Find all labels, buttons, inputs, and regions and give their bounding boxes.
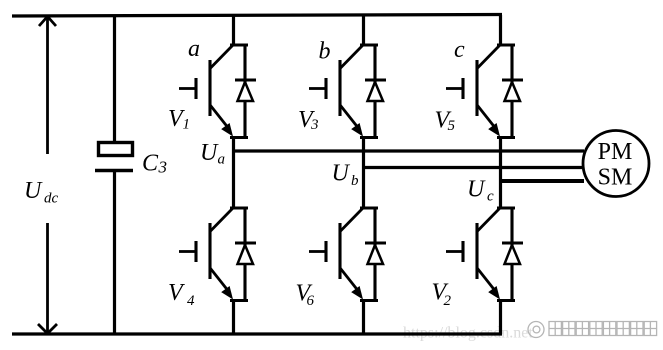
- svg-text:PM: PM: [598, 139, 633, 165]
- svg-text:U: U: [332, 161, 351, 187]
- svg-text:c: c: [454, 37, 465, 63]
- svg-text:V: V: [168, 280, 185, 306]
- svg-text:1: 1: [183, 117, 191, 133]
- svg-text:4: 4: [187, 293, 195, 309]
- svg-text:U: U: [24, 178, 43, 204]
- svg-text:C: C: [142, 151, 159, 177]
- svg-text:6: 6: [307, 293, 315, 309]
- svg-text:dc: dc: [44, 191, 59, 207]
- svg-text:5: 5: [448, 118, 456, 134]
- svg-text:b: b: [319, 39, 331, 65]
- svg-text:c: c: [487, 189, 494, 205]
- svg-text:U: U: [467, 176, 486, 202]
- svg-text:b: b: [351, 173, 359, 189]
- svg-text:a: a: [188, 36, 200, 62]
- svg-text:U: U: [200, 140, 219, 166]
- svg-text:2: 2: [444, 293, 452, 309]
- svg-text:3: 3: [310, 117, 319, 133]
- svg-text:a: a: [218, 152, 226, 168]
- svg-text:SM: SM: [598, 165, 633, 191]
- svg-text:3: 3: [158, 158, 168, 177]
